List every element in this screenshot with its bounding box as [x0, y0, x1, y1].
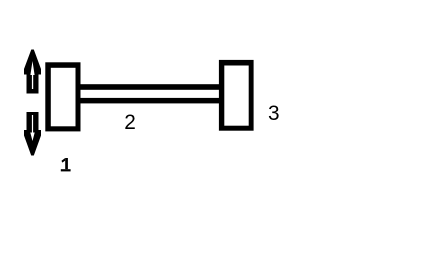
down arrow (force arrow, downward)	[24, 112, 41, 156]
bar bottom line (element 2)	[81, 98, 220, 104]
right block (element 3)	[219, 60, 254, 131]
label 1	[61, 158, 71, 171]
svg-text:2: 2	[124, 111, 136, 134]
left block (element 1)	[45, 62, 80, 131]
bar top line (element 2)	[81, 84, 220, 90]
svg-text:3: 3	[268, 102, 280, 125]
up arrow (force arrow, upward)	[24, 50, 41, 94]
